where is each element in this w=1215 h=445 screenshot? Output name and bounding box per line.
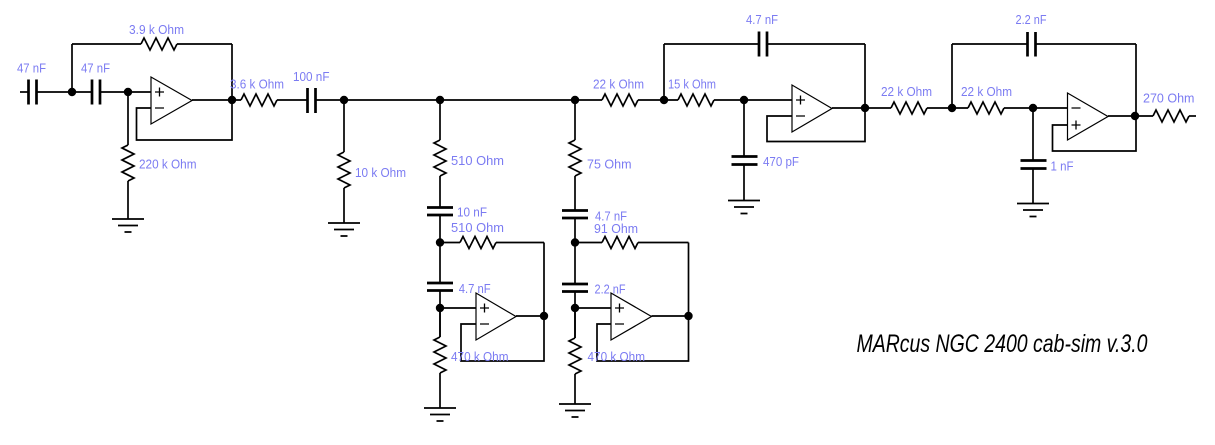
svg-text:510 Ohm: 510 Ohm [451,220,504,235]
svg-text:220 k Ohm: 220 k Ohm [139,157,197,172]
op-amp U4 [792,85,832,132]
resistor R2 220k vertical [122,92,134,219]
svg-text:MARcus NGC 2400 cab-sim v.3.0: MARcus NGC 2400 cab-sim v.3.0 [857,330,1148,358]
svg-text:270 Ohm: 270 Ohm [1143,91,1195,106]
node U2 out junction dot [540,312,548,320]
node I junction dot [571,304,579,312]
wire node I to U3 [575,307,611,309]
ground G5 [728,201,760,214]
wire U4 minus feedback loop [767,108,865,142]
resistor R8 75 vertical [569,100,581,211]
ground G4 [559,404,591,417]
resistor R3 3.6k [241,94,277,106]
wire feedback left vertical [71,44,73,92]
wire U2 output [516,315,544,317]
node H junction dot [571,238,579,246]
wire C5 to node F [439,291,441,338]
svg-text:15 k Ohm: 15 k Ohm [668,76,716,91]
wire U5 plus feedback loop [1053,116,1137,151]
node G junction dot [571,96,579,104]
node E junction dot [436,238,444,246]
node F junction dot [436,304,444,312]
wire output stub [1189,115,1196,117]
svg-text:510 Ohm: 510 Ohm [451,153,504,168]
wire feedback right vertical [231,44,233,100]
wire 4.7nF feedback right vertical [864,44,866,108]
resistor R4 10k vertical [338,100,350,223]
capacitor C9 470pF vertical [732,100,758,201]
ground G2 [328,223,360,236]
wire main bus [316,99,603,101]
wire 2.2nF feedback top left [952,43,1028,45]
svg-text:10 nF: 10 nF [457,204,487,219]
wire R14 to U5 [1004,107,1068,109]
svg-text:22 k Ohm: 22 k Ohm [881,84,932,99]
capacitor C3 100nF [308,88,316,113]
op-amp U5 [1068,93,1109,140]
resistor R10 470k vertical [569,308,581,404]
svg-text:91 Ohm: 91 Ohm [594,221,638,236]
op-amp U3 [611,293,652,340]
wire feedback top left segment [72,43,141,45]
wire R3 to C3 [277,99,308,101]
resistor R13 22k [891,102,927,114]
wire 4.7nF feedback left vertical [663,44,665,100]
resistor R9 91 horizontal [575,237,689,249]
wire node F to U2 [440,307,476,309]
svg-text:470 k Ohm: 470 k Ohm [451,349,509,364]
node D junction dot [436,96,444,104]
svg-text:4.7 nF: 4.7 nF [459,281,491,296]
node C junction dot [340,96,348,104]
wire 4.7nF feedback top left [664,43,759,45]
ground G3 [424,408,456,421]
svg-text:4.7 nF: 4.7 nF [746,12,778,27]
ground G6 [1017,204,1049,217]
capacitor C6 4.7nF [562,211,588,219]
node M junction dot [1029,104,1037,112]
node U5 out junction dot [1131,112,1139,120]
wire C2 to op-amp U1 + input [100,91,151,93]
wire R6 feedback vertical [543,243,545,317]
wire C1 to C2 [37,91,93,93]
wire U5 output [1108,115,1153,117]
svg-text:1 nF: 1 nF [1051,159,1074,174]
node B junction dot [124,88,132,96]
wire U4 output [832,107,891,109]
wire U1 minus feedback loop [137,100,233,140]
wire R12 to U4 [714,99,792,101]
capacitor C10 2.2nF [1028,32,1036,57]
svg-text:2.2 nF: 2.2 nF [595,282,626,297]
svg-text:100 nF: 100 nF [293,69,330,84]
resistor R1 3.9k [141,38,177,50]
capacitor C11 1nF vertical [1021,108,1047,204]
node L junction dot [948,104,956,112]
node U1 out junction dot [228,96,236,104]
node K junction dot [740,96,748,104]
capacitor C4 10nF [427,208,453,216]
wire C4 to node E [439,215,441,283]
resistor R5 510 vertical [434,100,446,208]
wire 2.2nF feedback top right [1036,43,1137,45]
resistor R14 22k [968,102,1004,114]
node A junction dot [68,88,76,96]
wire feedback top right segment [177,43,232,45]
resistor R15 270 [1153,110,1189,122]
capacitor C1 47nF [29,80,37,105]
resistor R7 470k vertical [434,308,446,408]
wire node J to R12 [638,99,678,101]
ground G1 [112,219,144,232]
svg-text:10 k Ohm: 10 k Ohm [355,165,406,180]
wire 4.7nF feedback top right [767,43,865,45]
svg-text:3.9 k Ohm: 3.9 k Ohm [129,22,184,37]
svg-text:47 nF: 47 nF [81,61,110,76]
svg-text:22 k Ohm: 22 k Ohm [961,84,1012,99]
wire U3 minus feedback loop [597,316,689,361]
wire U2 minus feedback loop [461,316,544,361]
wire U1 output [192,99,241,101]
capacitor C5 4.7nF [427,283,453,291]
wire R9 feedback vertical [688,243,690,317]
wire 2.2nF feedback right vertical [1135,44,1137,116]
resistor R11 22k bus [602,94,638,106]
resistor R12 15k [678,94,714,106]
capacitor C7 2.2nF [562,284,588,292]
node U3 out junction dot [684,312,692,320]
svg-text:470 pF: 470 pF [763,154,799,169]
node J junction dot [660,96,668,104]
resistor R6 510 horizontal [440,237,544,249]
op-amp U1 [151,77,192,124]
capacitor C2 47nF [92,80,100,105]
svg-text:75 Ohm: 75 Ohm [587,157,632,172]
wire 2.2nF feedback left vertical [951,44,953,108]
svg-text:3.6 k Ohm: 3.6 k Ohm [230,76,284,91]
wire C6 to node H [574,218,576,284]
svg-text:470 k Ohm: 470 k Ohm [588,349,646,364]
node U4 out junction dot [861,104,869,112]
wire R13 to R14 [927,107,968,109]
svg-text:47 nF: 47 nF [17,61,46,76]
capacitor C8 4.7nF [759,32,767,57]
svg-text:2.2 nF: 2.2 nF [1016,12,1047,27]
wire U3 output [652,315,689,317]
op-amp U2 [476,293,516,340]
wire C7 to node I [574,292,576,339]
wire input stub [20,91,29,93]
svg-text:22 k Ohm: 22 k Ohm [593,76,644,91]
